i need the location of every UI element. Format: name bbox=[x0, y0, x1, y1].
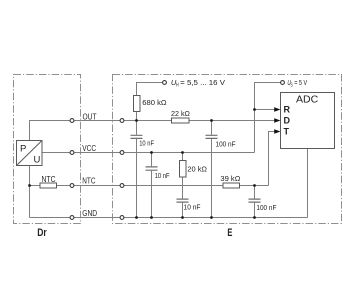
svg-text:= 5 V: = 5 V bbox=[294, 78, 307, 87]
junction dots bbox=[28, 108, 256, 219]
terminal OUT sensor side bbox=[70, 119, 74, 123]
svg-text:NTC: NTC bbox=[82, 177, 95, 186]
svg-text:22 kΩ: 22 kΩ bbox=[171, 111, 190, 118]
svg-text:10 nF: 10 nF bbox=[139, 140, 154, 147]
label Us supply bbox=[287, 78, 307, 88]
wire ADC ground lead bbox=[307, 149, 309, 218]
resistor R 22k bbox=[172, 118, 190, 123]
resistor R 20k bbox=[180, 161, 187, 178]
wire OUT/D rail in E box bbox=[124, 120, 274, 122]
svg-text:10 nF: 10 nF bbox=[155, 173, 170, 180]
wire VCC: sensor to terminal bbox=[42, 152, 70, 154]
arrow into R bbox=[274, 107, 280, 112]
svg-text:10 nF: 10 nF bbox=[184, 205, 201, 212]
svg-text:VCC: VCC bbox=[82, 144, 96, 153]
terminal circles bbox=[70, 81, 284, 220]
svg-text:GND: GND bbox=[82, 209, 97, 218]
node GND C2 bbox=[210, 216, 213, 219]
wire OUT: between terminals bbox=[74, 120, 120, 122]
node NTC branch in sensor bbox=[28, 184, 31, 187]
svg-text:= 5,5 ... 16 V: = 5,5 ... 16 V bbox=[180, 78, 225, 87]
terminal UH supply bbox=[163, 81, 167, 85]
svg-text:T: T bbox=[284, 127, 290, 137]
node C3/VCC bbox=[150, 151, 153, 154]
terminal VCC ECU side bbox=[120, 151, 124, 155]
svg-text:ADC: ADC bbox=[296, 94, 319, 106]
terminal Us supply bbox=[281, 81, 285, 85]
svg-text:R: R bbox=[284, 105, 291, 115]
capacitor C2 plates 100nF bbox=[206, 135, 218, 138]
ADC block U1 bbox=[281, 93, 335, 149]
wire OUT: sensor top lead bbox=[30, 121, 71, 141]
svg-text:39 kΩ: 39 kΩ bbox=[220, 176, 240, 183]
node GND C1 bbox=[135, 216, 138, 219]
wire NTC: branch to resistor bbox=[30, 185, 41, 187]
svg-text:P: P bbox=[20, 144, 26, 155]
svg-text:D: D bbox=[284, 116, 291, 126]
wire R line bbox=[255, 109, 275, 111]
svg-text:100 nF: 100 nF bbox=[216, 142, 236, 149]
resistor R 680k bbox=[134, 96, 141, 112]
Dr box border bbox=[14, 75, 81, 224]
svg-text:OUT: OUT bbox=[83, 113, 97, 122]
node GND C3 bbox=[150, 216, 153, 219]
wire NTC rail in E box bbox=[124, 185, 269, 187]
svg-text:100 nF: 100 nF bbox=[256, 205, 276, 212]
arrow into T bbox=[274, 129, 280, 134]
wire T line bbox=[269, 132, 275, 186]
wire capacitor C4 leads bbox=[182, 153, 184, 218]
labels bbox=[42, 113, 98, 218]
wire GND: between terminals bbox=[74, 217, 120, 219]
svg-text:Dr: Dr bbox=[37, 227, 47, 239]
wire capacitor C2 leads bbox=[211, 121, 213, 218]
capacitor C1 plates 10nF bbox=[131, 135, 143, 138]
wire capacitor C5 leads bbox=[254, 186, 256, 218]
node GND C5 bbox=[253, 216, 256, 219]
resistor R 39k bbox=[223, 183, 240, 188]
wire NTC: sensor vertical bbox=[29, 166, 31, 218]
wire VCC rail in E box bbox=[124, 152, 255, 154]
terminal GND sensor side bbox=[70, 216, 74, 220]
node R tap on 5V bbox=[253, 108, 256, 111]
wire capacitor C1 leads bbox=[136, 121, 138, 218]
wire VCC: between terminals bbox=[74, 152, 120, 154]
wire GND: sensor to terminal bbox=[30, 217, 71, 219]
terminal NTC sensor side bbox=[70, 184, 74, 188]
label UH supply bbox=[171, 78, 225, 88]
wire Us supply down to VCC bbox=[255, 83, 281, 153]
svg-text:E: E bbox=[227, 227, 232, 239]
capacitor C3 plates 10nF bbox=[146, 167, 158, 170]
capacitor C5 plates 100nF bbox=[249, 199, 261, 202]
svg-text:H: H bbox=[176, 82, 179, 88]
arrow into D bbox=[274, 118, 280, 123]
resistor NTC (in sensor) bbox=[40, 183, 57, 188]
svg-text:NTC: NTC bbox=[42, 175, 56, 184]
wire NTC: between terminals bbox=[74, 185, 120, 187]
node NTC/C5/T bbox=[253, 184, 256, 187]
wire NTC: resistor to terminal bbox=[57, 185, 71, 187]
wire capacitor C3 leads bbox=[151, 153, 153, 218]
terminal OUT ECU side bbox=[120, 119, 124, 123]
node C2/OUT bbox=[210, 119, 213, 122]
svg-text:20 kΩ: 20 kΩ bbox=[187, 166, 207, 173]
wire GND rail in E box bbox=[124, 217, 308, 219]
svg-text:U: U bbox=[34, 155, 41, 166]
sensor P/U block bbox=[17, 141, 43, 166]
capacitor C4 plates 10nF bbox=[177, 199, 189, 202]
E box border bbox=[113, 75, 342, 224]
node GND C4 bbox=[181, 216, 184, 219]
svg-text:680 kΩ: 680 kΩ bbox=[142, 100, 166, 107]
node 680k/C1/OUT bbox=[135, 119, 138, 122]
terminal GND ECU side bbox=[120, 216, 124, 220]
terminal VCC sensor side bbox=[70, 151, 74, 155]
wire 680k top to UH terminal bbox=[137, 83, 163, 121]
node 20k/VCC bbox=[181, 151, 184, 154]
terminal NTC ECU side bbox=[120, 184, 124, 188]
